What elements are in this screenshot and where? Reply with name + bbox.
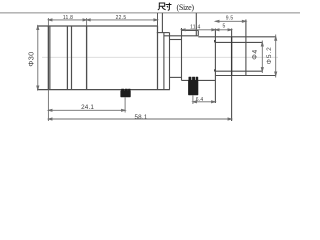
svg-text:(Size): (Size): [177, 3, 195, 12]
svg-text:58.1: 58.1: [134, 114, 147, 121]
svg-text:22.5: 22.5: [116, 15, 127, 21]
svg-text:Φ30: Φ30: [26, 51, 35, 66]
svg-text:Φ4: Φ4: [252, 49, 259, 60]
svg-text:24.1: 24.1: [81, 104, 94, 111]
svg-text:6.4: 6.4: [196, 97, 204, 103]
svg-text:5: 5: [222, 23, 225, 29]
svg-text:Φ5.2: Φ5.2: [266, 46, 273, 64]
svg-text:11.8: 11.8: [63, 15, 73, 21]
svg-text:11.4: 11.4: [190, 25, 200, 31]
svg-text:9.5: 9.5: [226, 16, 234, 22]
